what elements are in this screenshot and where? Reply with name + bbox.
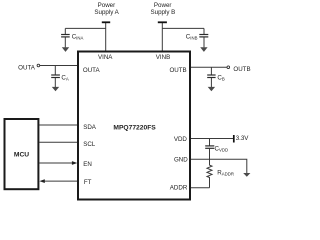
svg-text:3.3V: 3.3V (236, 135, 250, 142)
svg-text:Supply A: Supply A (94, 9, 119, 16)
svg-text:VINB: VINB (156, 54, 170, 61)
svg-text:SDA: SDA (83, 124, 97, 131)
svg-text:VDD: VDD (174, 136, 188, 143)
svg-text:EN: EN (83, 161, 92, 168)
svg-text:Power: Power (98, 2, 116, 9)
svg-text:Supply B: Supply B (151, 9, 176, 16)
svg-text:OUTA: OUTA (83, 67, 101, 74)
svg-text:MCU: MCU (14, 152, 29, 159)
svg-text:OUTB: OUTB (233, 66, 250, 73)
svg-text:VINA: VINA (98, 54, 113, 61)
svg-text:FT: FT (84, 179, 92, 186)
svg-text:OUTA: OUTA (18, 65, 36, 72)
svg-text:Power: Power (154, 2, 172, 9)
svg-text:MPQ77220FS: MPQ77220FS (113, 124, 156, 131)
svg-text:GND: GND (174, 157, 188, 164)
svg-text:SCL: SCL (83, 141, 96, 148)
svg-text:ADDR: ADDR (170, 185, 188, 192)
svg-text:OUTB: OUTB (169, 67, 186, 74)
